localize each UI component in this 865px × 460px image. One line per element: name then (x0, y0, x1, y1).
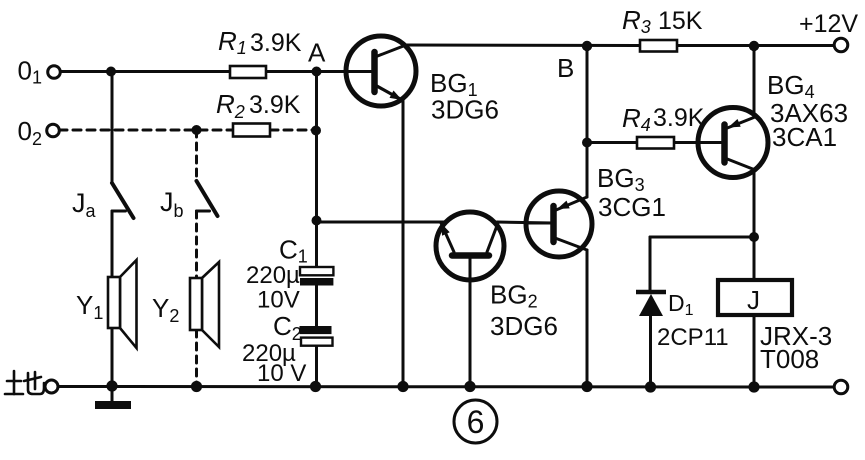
svg-text:3CG1: 3CG1 (598, 192, 666, 222)
svg-text:3DG6: 3DG6 (490, 311, 558, 341)
svg-text:3.9K: 3.9K (249, 91, 301, 119)
svg-text:10 V: 10 V (257, 360, 306, 387)
svg-text:220µ: 220µ (246, 262, 300, 289)
svg-text:A: A (308, 38, 326, 68)
svg-text:B: B (557, 53, 574, 83)
svg-text:6: 6 (467, 404, 485, 440)
svg-text:3CA1: 3CA1 (772, 122, 837, 152)
svg-text:3.9K: 3.9K (250, 29, 302, 57)
svg-text:J: J (747, 285, 760, 315)
svg-text:3.9K: 3.9K (653, 104, 705, 132)
svg-text:10V: 10V (257, 287, 300, 314)
svg-text:15K: 15K (658, 7, 703, 35)
svg-text:+12V: +12V (799, 10, 858, 38)
svg-text:3DG6: 3DG6 (431, 95, 499, 125)
svg-text:2CP11: 2CP11 (657, 324, 729, 351)
svg-text:T008: T008 (760, 344, 819, 374)
